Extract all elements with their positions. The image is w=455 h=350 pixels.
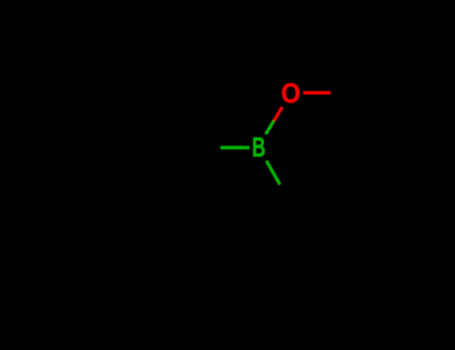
atom label B (boron) — [252, 132, 266, 162]
bond B-O green half (near B) — [266, 121, 274, 134]
svg-text:O: O — [281, 77, 300, 109]
bond B-O red half (near O) — [274, 107, 282, 121]
bond C-B left horizontal (green half near B) — [220, 146, 249, 150]
svg-text:B: B — [252, 132, 266, 162]
bond B-C lower right diagonal (green half near B) — [266, 161, 280, 185]
atom label O (oxygen) — [281, 77, 300, 109]
bond O-C right horizontal (red half near O) — [303, 91, 330, 95]
